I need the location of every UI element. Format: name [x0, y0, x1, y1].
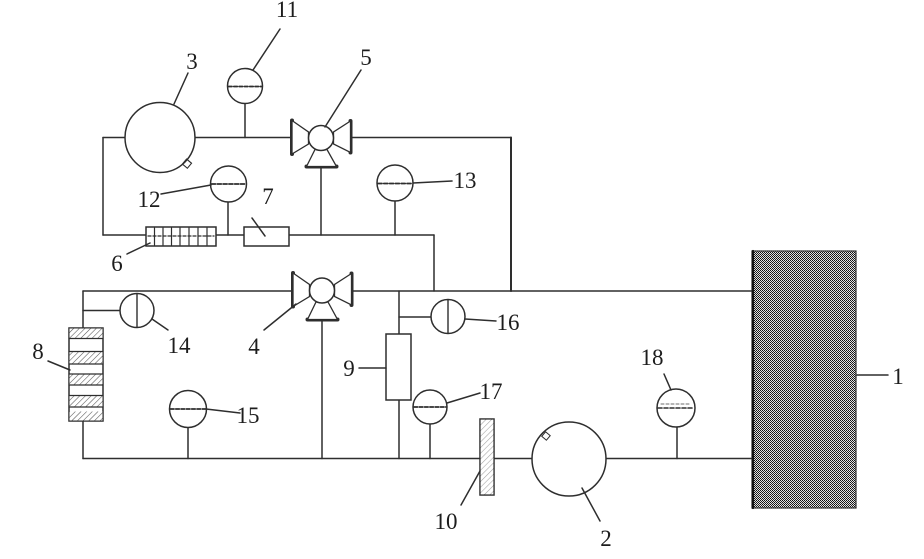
leader line for label 4 — [264, 304, 296, 330]
svg-text:9: 9 — [343, 356, 355, 381]
leader line for label 8 — [48, 361, 70, 370]
leader line for label 6 — [127, 243, 150, 254]
wire: gauge 17 stem — [429, 424, 431, 459]
svg-text:8: 8 — [32, 339, 44, 364]
wire: loop A top pipe — [194, 137, 511, 139]
wire: gauge 18 stem — [676, 427, 678, 459]
svg-text:11: 11 — [276, 0, 298, 22]
gauge 12 — [211, 166, 247, 202]
svg-text:17: 17 — [480, 379, 503, 404]
leader line for label 3 — [174, 73, 188, 104]
pump 2 (large circle) — [532, 422, 606, 496]
small diamond artifact on pump 2 — [542, 432, 550, 440]
test chamber 1 (shaded box) — [752, 251, 856, 508]
wire: loop B left vertical — [82, 291, 84, 459]
tank 3 (large circle) — [125, 103, 195, 173]
leader line for label 13 — [413, 181, 452, 183]
leader line for label 17 — [447, 393, 480, 403]
svg-text:18: 18 — [641, 345, 664, 370]
wire: gauge 15 stem — [187, 427, 189, 459]
wire: gauge 13 stem — [394, 201, 396, 235]
leader line for label 1 — [857, 374, 888, 376]
wire: stub to sight glass 14 — [83, 310, 121, 312]
wire: loop A stub from corner to tank 3 — [103, 137, 126, 139]
wire: loop A right vertical — [510, 138, 512, 292]
regulating valve 7 — [244, 218, 289, 246]
gauge 17 — [413, 390, 447, 424]
svg-text:14: 14 — [168, 333, 192, 358]
svg-text:3: 3 — [186, 49, 198, 74]
heater 6 (finned block) — [146, 227, 216, 246]
svg-text:6: 6 — [111, 251, 123, 276]
heat exchanger 8 (banded column) — [69, 328, 103, 421]
leader line for label 14 — [152, 319, 168, 330]
wire: valve 4 bottom stem — [321, 320, 323, 459]
wire: loop B top pipe — [83, 290, 752, 292]
svg-text:12: 12 — [138, 187, 161, 212]
leader line for label 10 — [461, 471, 480, 505]
svg-text:5: 5 — [360, 45, 372, 70]
wire: gauge 12 stem — [227, 201, 229, 235]
svg-text:4: 4 — [248, 334, 260, 359]
gauge 15 — [170, 391, 207, 428]
leader line for label 16 — [465, 319, 496, 321]
svg-text:13: 13 — [454, 168, 477, 193]
svg-text:15: 15 — [237, 403, 260, 428]
gauge 18 — [657, 389, 695, 427]
sight glass 16 — [431, 300, 465, 334]
leader line for label 5 — [325, 70, 361, 127]
damper 9 (tall rectangle) — [386, 334, 411, 400]
leader line for label 9 — [359, 367, 386, 369]
small diamond artifact on tank 3 — [182, 159, 191, 168]
wire: stub to sight glass 16 — [399, 316, 432, 318]
wire: loop A left vertical — [102, 138, 104, 236]
wire: bottom pipe — [83, 458, 752, 460]
wire: valve 5 bottom stem — [320, 167, 322, 235]
leader line for label 18 — [664, 374, 671, 390]
wire: loop A bottom pipe — [103, 234, 434, 236]
three-way valve 5 — [292, 121, 351, 167]
sight glass 14 — [120, 294, 154, 328]
svg-text:2: 2 — [600, 526, 612, 551]
leader line for label 2 — [582, 488, 600, 521]
leader line for label 11 — [253, 29, 280, 70]
three-way valve 4 — [293, 273, 352, 320]
svg-text:7: 7 — [262, 184, 274, 209]
svg-text:10: 10 — [435, 509, 458, 534]
wire: vertical through damper 9 — [398, 291, 400, 459]
svg-text:1: 1 — [892, 364, 904, 389]
wire: vertical connecting loop A bottom pipe to loop B pipe — [433, 235, 435, 291]
leader line for label 15 — [206, 409, 240, 413]
wire: gauge 11 stem — [244, 103, 246, 138]
gauge 11 — [228, 69, 263, 104]
filter 10 (narrow slab) — [480, 419, 494, 495]
svg-text:16: 16 — [497, 310, 520, 335]
gauge 13 — [377, 165, 413, 201]
leader line for label 12 — [161, 185, 211, 194]
